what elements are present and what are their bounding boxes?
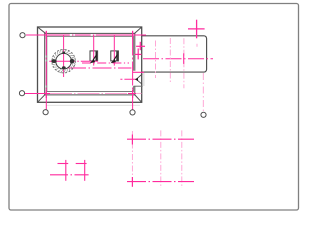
side view small centermark x197 <box>196 44 198 47</box>
side tab arrow lower tail <box>137 80 143 85</box>
magenta overlay right rect bottom <box>133 71 144 73</box>
bottom view cross 1 <box>131 135 133 145</box>
side view horizontal centerline <box>143 58 213 60</box>
screw cross top-left <box>45 31 47 39</box>
side view centerline x170.3 <box>169 38 171 83</box>
centerline vertical left x46.3 <box>45 32 47 110</box>
cable clamp 2 thick edge <box>116 51 118 60</box>
knockout tab N <box>62 52 65 54</box>
knockout tab W <box>51 59 56 63</box>
bottom-left knockout horizontal upper <box>58 163 69 165</box>
centerline horizontal bottom y93.5 light middle <box>50 93 128 95</box>
faint shadow line under box <box>46 104 140 106</box>
screw cross bottom-right <box>132 90 134 98</box>
side view body <box>141 36 206 72</box>
mounting hole bottom-left <box>43 110 48 115</box>
knockout tab E <box>70 59 74 64</box>
bottom view horizontal y181.6 <box>127 181 194 183</box>
drawing sheet border <box>9 4 299 211</box>
side tab bottom edge <box>134 85 143 87</box>
clamp 1 vertical centerline <box>93 35 95 65</box>
centerline vertical right x132.6 <box>132 32 134 110</box>
centerline horizontal bottom y93.5 bright left <box>25 93 50 95</box>
cable clamp 1 arrow tail <box>93 55 97 61</box>
corner draft diagonal BL <box>38 95 45 103</box>
cable clamp 1 body <box>90 51 98 61</box>
bottom view vertical x160.8 <box>160 130 162 188</box>
side knockout cross upper <box>139 42 141 50</box>
side tab arrow head <box>135 78 138 82</box>
side view centerline x155.5 <box>155 41 157 79</box>
cable clamp 2 arrow head <box>111 59 116 63</box>
corner draft diagonal TR <box>135 27 142 33</box>
bottom view cross 2 <box>131 177 133 187</box>
box floor outline (right edge interrupted by side tab) <box>47 36 134 91</box>
box outer flange rect (plan view) <box>38 27 142 102</box>
bottom view horizontal y139.2 <box>127 138 194 140</box>
tab centerline y79.3 <box>120 78 136 80</box>
corner draft diagonal TL <box>38 27 46 33</box>
cable clamp 1 thick edge <box>95 51 97 60</box>
centerline y63 through clamps <box>82 62 129 64</box>
screw cross bottom-left <box>45 90 47 98</box>
cable clamp 1 arrow head <box>90 59 95 63</box>
centerline horizontal bottom y93.5 light tail <box>136 92 142 94</box>
bottom-left knockout vertical 2 <box>84 160 86 181</box>
side view center cross <box>183 53 185 64</box>
clamp 2 vertical centerline <box>113 35 115 65</box>
cable clamp 2 body <box>111 51 119 61</box>
cable clamp 2 arrow tail <box>114 55 118 61</box>
knockout horizontal centerline <box>49 60 98 62</box>
corner draft diagonal BR <box>135 95 142 103</box>
bottom view vertical x132.4 <box>131 131 133 188</box>
knockout vertical centerline <box>63 35 65 77</box>
mounting hole mid-left <box>19 91 24 96</box>
centerline y68 long <box>67 67 131 69</box>
centerline to bottom-right hole <box>202 73 204 112</box>
mounting hole top-left <box>20 33 25 38</box>
knockout tab S <box>62 66 66 69</box>
centerline horizontal bottom y93.5 bright right <box>128 93 136 95</box>
screw cross top-right <box>132 31 134 39</box>
knockout boss outer serrated circle <box>52 50 75 73</box>
mounting hole bottom-mid <box>130 110 135 115</box>
bottom view vertical x181.8 <box>181 130 183 188</box>
centerline horizontal top y35 <box>26 34 146 36</box>
side knockout cross lower <box>137 48 139 59</box>
knockout boss hatch ring <box>51 49 76 74</box>
bottom-left knockout horizontal lower <box>50 174 89 176</box>
side tab arrow upper tail <box>137 74 143 79</box>
side view centerline x183.9 light <box>183 38 185 88</box>
box inner rim outline (right edge interrupted by side tab) <box>45 33 135 95</box>
bottom-left knockout vertical 1 <box>65 160 67 181</box>
hub big cross <box>188 28 205 30</box>
knockout boss inner circle <box>56 53 72 69</box>
side tab outer edge <box>143 73 145 86</box>
mounting hole bottom-right <box>201 112 206 117</box>
